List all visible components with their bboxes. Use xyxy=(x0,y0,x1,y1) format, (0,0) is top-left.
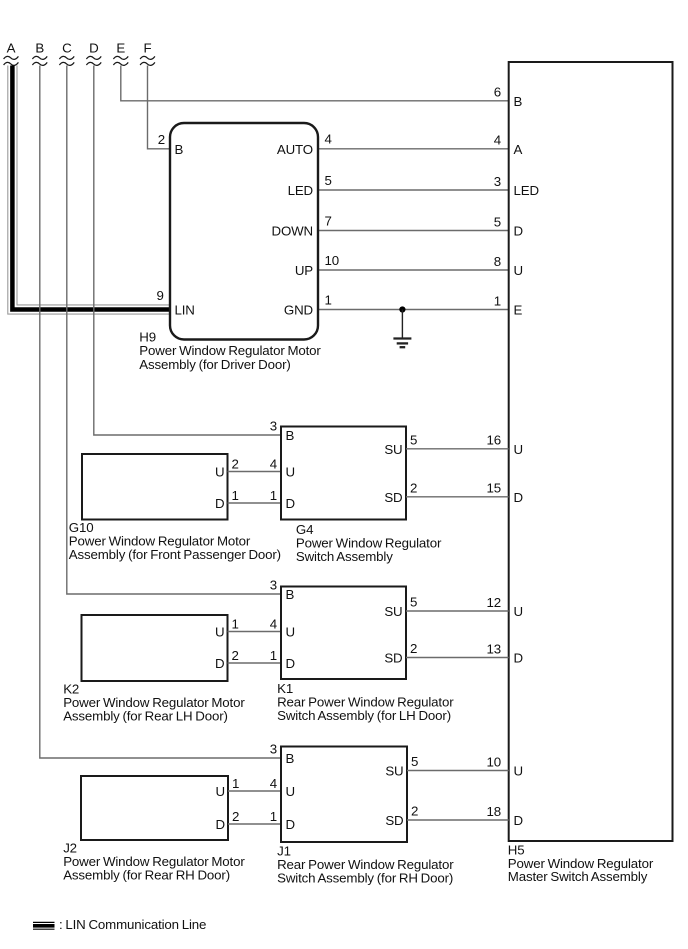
svg-text:5: 5 xyxy=(410,595,417,610)
svg-text:LED: LED xyxy=(288,183,313,198)
node A (connector break) xyxy=(4,41,19,66)
K1 reference label xyxy=(277,681,454,723)
wire J1 SU to H5 xyxy=(407,770,509,772)
svg-text:D: D xyxy=(514,813,523,828)
wire B: node B down to J1 pin 3 xyxy=(40,66,281,759)
block G4: switch assembly xyxy=(281,427,406,520)
svg-text:9: 9 xyxy=(156,288,163,303)
svg-text:UP: UP xyxy=(295,263,313,278)
wire DOWN: H9 pin 7 to H5 pin 5 xyxy=(318,230,509,232)
K2 reference label xyxy=(63,682,245,724)
svg-text:2: 2 xyxy=(232,809,239,824)
wire LED: H9 pin 5 to H5 pin 3 xyxy=(318,189,509,191)
wire GND: H9 pin 1 to H5 pin 1 xyxy=(318,309,509,311)
svg-text:F: F xyxy=(144,41,152,56)
wire G4 SD to H5 xyxy=(406,496,509,498)
block J2: motor assembly xyxy=(81,776,228,840)
svg-text:D: D xyxy=(215,496,224,511)
wire K1 SU to H5 xyxy=(406,610,509,612)
svg-text:2: 2 xyxy=(232,457,239,472)
svg-text:Switch Assembly (for LH Door): Switch Assembly (for LH Door) xyxy=(277,708,451,723)
svg-text:SD: SD xyxy=(385,813,403,828)
svg-text:1: 1 xyxy=(270,648,277,663)
svg-text:D: D xyxy=(215,656,224,671)
block H5: Power Window Regulator Master Switch Assembly xyxy=(509,62,673,841)
svg-text:1: 1 xyxy=(270,809,277,824)
svg-text:U: U xyxy=(514,604,523,619)
block J1: switch assembly xyxy=(281,747,407,843)
svg-text:1: 1 xyxy=(325,292,332,307)
svg-text:1: 1 xyxy=(494,293,501,308)
svg-text:E: E xyxy=(514,303,523,318)
svg-text:4: 4 xyxy=(270,617,277,632)
svg-text:B: B xyxy=(286,751,295,766)
node C (connector break) xyxy=(59,41,74,66)
svg-text:D: D xyxy=(216,817,225,832)
svg-text:2: 2 xyxy=(410,480,417,495)
svg-text:D: D xyxy=(286,656,295,671)
svg-text:U: U xyxy=(514,263,523,278)
svg-text:4: 4 xyxy=(270,776,277,791)
svg-text:13: 13 xyxy=(487,641,502,656)
block K2: motor assembly xyxy=(82,615,228,681)
svg-text:U: U xyxy=(216,784,225,799)
svg-text:D: D xyxy=(514,651,523,666)
svg-text:C: C xyxy=(62,41,72,56)
svg-text:D: D xyxy=(286,817,295,832)
svg-text:5: 5 xyxy=(410,432,417,447)
svg-text:Assembly (for Front Passenger: Assembly (for Front Passenger Door) xyxy=(69,547,281,562)
svg-text:2: 2 xyxy=(158,132,165,147)
legend: LIN communication line symbol xyxy=(33,922,55,929)
svg-text:7: 7 xyxy=(325,213,332,228)
svg-text:4: 4 xyxy=(270,457,277,472)
svg-text:AUTO: AUTO xyxy=(277,142,313,157)
svg-text:2: 2 xyxy=(232,648,239,663)
svg-text:U: U xyxy=(514,764,523,779)
svg-text:LIN: LIN xyxy=(175,303,195,318)
svg-text:10: 10 xyxy=(487,754,502,769)
svg-text:15: 15 xyxy=(487,481,502,496)
svg-text:SU: SU xyxy=(384,604,402,619)
wire K2 U to K1 U xyxy=(228,631,282,633)
wire AUTO: H9 pin 4 to H5 pin 4 xyxy=(318,148,509,150)
svg-text:2: 2 xyxy=(411,804,418,819)
svg-text:1: 1 xyxy=(232,488,239,503)
wire E: node E to H5 pin 6 xyxy=(121,66,509,101)
svg-text:A: A xyxy=(514,142,523,157)
svg-text:Assembly (for Rear LH Door): Assembly (for Rear LH Door) xyxy=(63,708,228,723)
svg-text:E: E xyxy=(116,41,125,56)
wire J2 D to J1 D xyxy=(228,823,281,825)
wire C: node C down to K1 pin 3 xyxy=(67,66,281,595)
svg-text:Power Window Regulator Motor: Power Window Regulator Motor xyxy=(139,343,321,358)
svg-text:16: 16 xyxy=(487,433,502,448)
wire J1 SD to H5 xyxy=(407,819,509,821)
J2 reference label xyxy=(63,841,245,883)
svg-text:4: 4 xyxy=(325,132,332,147)
svg-text:D: D xyxy=(89,41,98,56)
G4 reference label xyxy=(296,522,442,564)
svg-text:Assembly (for Driver Door): Assembly (for Driver Door) xyxy=(139,357,290,372)
ground (on GND wire) xyxy=(393,306,411,347)
svg-text:U: U xyxy=(215,465,224,480)
node F (connector break) xyxy=(140,41,155,66)
node D (connector break) xyxy=(86,41,101,66)
svg-text:Master Switch Assembly: Master Switch Assembly xyxy=(508,869,648,884)
svg-text:SU: SU xyxy=(385,764,403,779)
block K1: switch assembly xyxy=(281,587,406,680)
wire K1 SD to H5 xyxy=(406,657,509,659)
wire G10 U to G4 U xyxy=(228,471,282,473)
wire G10 D to G4 D xyxy=(228,502,282,504)
svg-text:B: B xyxy=(175,142,184,157)
svg-text:3: 3 xyxy=(270,578,277,593)
svg-text:1: 1 xyxy=(232,617,239,632)
op block H9: Power Window Regulator Motor Assembly (for Driver Door) xyxy=(170,123,318,340)
svg-text:1: 1 xyxy=(232,776,239,791)
svg-text:5: 5 xyxy=(411,754,418,769)
svg-text:SD: SD xyxy=(384,490,402,505)
svg-text:B: B xyxy=(286,587,295,602)
svg-text:B: B xyxy=(35,41,44,56)
wire A: LIN communication line (thick) from node A to H9 pin 9 xyxy=(8,66,170,315)
wire K2 D to K1 D xyxy=(228,662,282,664)
wire D: node D down to G4 pin 3 xyxy=(94,66,281,436)
svg-text:5: 5 xyxy=(325,173,332,188)
svg-text:10: 10 xyxy=(325,253,340,268)
wire G4 SU to H5 xyxy=(406,448,509,450)
svg-text:4: 4 xyxy=(494,133,501,148)
block G10: motor assembly xyxy=(82,454,228,520)
svg-text:SU: SU xyxy=(384,442,402,457)
wire UP: H9 pin 10 to H5 pin 8 xyxy=(318,269,509,271)
svg-text:3: 3 xyxy=(494,174,501,189)
svg-text:A: A xyxy=(7,41,16,56)
wire J2 U to J1 U xyxy=(228,790,281,792)
svg-text:: LIN Communication Line: : LIN Communication Line xyxy=(59,917,206,932)
svg-text:Switch Assembly: Switch Assembly xyxy=(296,549,393,564)
svg-text:3: 3 xyxy=(270,419,277,434)
svg-text:SD: SD xyxy=(384,651,402,666)
svg-text:LED: LED xyxy=(514,183,539,198)
H5 reference label xyxy=(508,842,654,884)
svg-text:D: D xyxy=(286,496,295,511)
svg-text:1: 1 xyxy=(270,488,277,503)
H9 reference label xyxy=(139,330,321,372)
svg-text:U: U xyxy=(286,625,295,640)
node E (connector break) xyxy=(113,41,128,66)
node B (connector break) xyxy=(32,41,47,66)
G10 reference label xyxy=(69,520,281,562)
svg-text:D: D xyxy=(514,224,523,239)
svg-text:U: U xyxy=(286,465,295,480)
svg-text:B: B xyxy=(514,94,523,109)
svg-text:2: 2 xyxy=(410,641,417,656)
svg-text:12: 12 xyxy=(487,595,502,610)
svg-text:U: U xyxy=(514,442,523,457)
svg-text:DOWN: DOWN xyxy=(272,224,314,239)
svg-text:B: B xyxy=(286,428,295,443)
svg-text:6: 6 xyxy=(494,85,501,100)
svg-text:Switch Assembly (for RH Door): Switch Assembly (for RH Door) xyxy=(277,870,453,885)
svg-text:18: 18 xyxy=(487,804,502,819)
J1 reference label xyxy=(277,844,454,886)
svg-text:U: U xyxy=(215,625,224,640)
svg-text:8: 8 xyxy=(494,254,501,269)
svg-text:GND: GND xyxy=(284,303,313,318)
svg-text:Assembly (for Rear RH Door): Assembly (for Rear RH Door) xyxy=(63,868,230,883)
svg-text:5: 5 xyxy=(494,214,501,229)
svg-text:D: D xyxy=(514,490,523,505)
svg-text:3: 3 xyxy=(270,742,277,757)
svg-text:U: U xyxy=(286,784,295,799)
wire F: node F to H9 pin 2 xyxy=(148,66,171,149)
